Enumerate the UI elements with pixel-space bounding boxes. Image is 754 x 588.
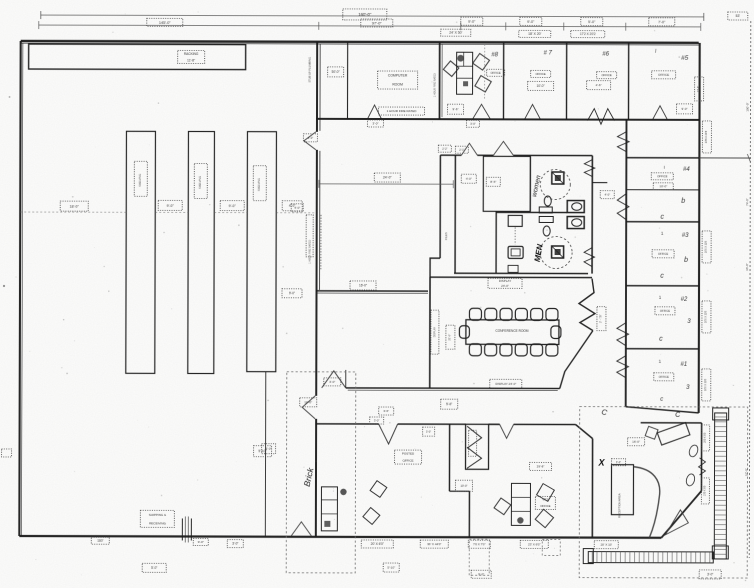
dim line far right bbox=[749, 21, 750, 558]
reception right wall bbox=[700, 423, 702, 491]
stoop dotted bbox=[469, 539, 489, 575]
svg-text:7'0 X 7'0": 7'0 X 7'0" bbox=[473, 542, 486, 546]
desk divider bbox=[457, 65, 473, 67]
svg-text:74'-0": 74'-0" bbox=[745, 198, 749, 206]
sidewalk tick bbox=[685, 552, 687, 563]
sidewalk tick bbox=[610, 552, 612, 563]
desk vp office bbox=[511, 483, 530, 525]
office 3 label bbox=[652, 250, 674, 258]
dim tick bbox=[318, 22, 320, 30]
sidewalk tick bbox=[715, 436, 727, 438]
svg-text:FILES: FILES bbox=[444, 232, 448, 240]
svg-text:20' X 10': 20' X 10' bbox=[601, 543, 613, 547]
dim extension line bbox=[699, 157, 750, 159]
svg-text:50'-0": 50'-0" bbox=[332, 70, 340, 74]
svg-text:SHELVING: SHELVING bbox=[257, 178, 261, 191]
display vert label bbox=[431, 310, 439, 354]
dim tick bbox=[505, 22, 507, 30]
wall office5/4 bbox=[626, 157, 699, 159]
dim label 9'0 bbox=[461, 17, 483, 25]
dim left bbox=[282, 289, 302, 298]
office 5 label bbox=[652, 71, 676, 79]
door office 7 bbox=[524, 104, 540, 119]
sidewalk tick bbox=[714, 538, 726, 540]
posted office label bbox=[395, 450, 422, 464]
sidewalk tick bbox=[715, 465, 727, 467]
sidewalk tick bbox=[695, 552, 697, 563]
conference chair left end bbox=[459, 326, 469, 339]
office 8 label bbox=[487, 69, 505, 76]
conference chair bottom bbox=[500, 344, 512, 356]
svg-text:1 HOUR FIRE RATED: 1 HOUR FIRE RATED bbox=[309, 240, 312, 264]
svg-text:RECEIVING: RECEIVING bbox=[149, 521, 166, 525]
wall warehouse-office divider mid bbox=[315, 150, 318, 396]
conference chair top bbox=[531, 308, 543, 320]
dim 5'6 bbox=[441, 399, 458, 409]
svg-text:4'-0": 4'-0" bbox=[466, 177, 472, 181]
conference right zigzag wall bbox=[579, 279, 595, 331]
svg-text:b: b bbox=[684, 257, 688, 264]
closet bifold b bbox=[467, 447, 482, 468]
svg-text:1 HOUR FIRE RATED: 1 HOUR FIRE RATED bbox=[434, 73, 437, 97]
dim tick bbox=[563, 23, 565, 31]
door right office b bbox=[617, 194, 629, 220]
chair office 8 b bbox=[473, 53, 490, 70]
sidewalk tick bbox=[714, 489, 726, 491]
svg-text:9'-0": 9'-0" bbox=[468, 20, 476, 24]
svg-text:9'-0": 9'-0" bbox=[229, 204, 237, 208]
svg-text:145'-0": 145'-0" bbox=[159, 21, 171, 25]
sidewalk tick bbox=[714, 509, 726, 511]
sidewalk tick bbox=[681, 552, 683, 563]
svg-text:5'-10": 5'-10" bbox=[387, 566, 395, 570]
wall warehouse-office divider lower bbox=[315, 419, 317, 537]
dimension line segments bbox=[39, 25, 701, 27]
wall vestibule left bbox=[495, 211, 497, 273]
svg-text:4'-6": 4'-6" bbox=[596, 83, 602, 87]
conference left wall bbox=[429, 277, 431, 388]
computer room left wall bbox=[346, 42, 348, 119]
closet vp bbox=[466, 424, 489, 469]
dispenser women bbox=[539, 207, 552, 213]
office 7 label bbox=[531, 70, 551, 77]
sidewalk bar top box bbox=[713, 408, 729, 420]
door posted office bbox=[379, 424, 398, 444]
dashed dim line bbox=[155, 211, 188, 213]
svg-text:53': 53' bbox=[736, 14, 741, 18]
vp office label bbox=[535, 496, 555, 509]
svg-text:3'-0": 3'-0" bbox=[470, 122, 476, 126]
conference chair top bbox=[515, 308, 527, 320]
svg-text:5'-0": 5'-0" bbox=[588, 20, 596, 24]
sidewalk tick bbox=[714, 543, 726, 545]
conference chair bottom bbox=[469, 344, 481, 356]
svg-text:3'-0": 3'-0" bbox=[329, 380, 335, 384]
dim tick bbox=[40, 11, 42, 19]
desk office 8 bbox=[457, 52, 473, 94]
sidewalk tick bbox=[591, 552, 593, 563]
files chase step bbox=[430, 258, 440, 277]
desk divider bbox=[321, 513, 337, 515]
dim label rotated right wall bbox=[702, 369, 711, 401]
outer wall top bbox=[21, 41, 699, 43]
vestibule fixture box bbox=[508, 215, 522, 226]
svg-text:RECEPTION AREA: RECEPTION AREA bbox=[617, 493, 621, 518]
dim label warehouse bbox=[220, 201, 244, 211]
sidewalk tick bbox=[709, 552, 711, 563]
shelving label 3 bbox=[253, 166, 266, 201]
svg-text:STUB UP PLUMBING: STUB UP PLUMBING bbox=[308, 57, 312, 82]
dim label 3'0 bbox=[227, 540, 243, 548]
speck mark left upper bbox=[9, 96, 11, 98]
svg-text:# 7: # 7 bbox=[543, 50, 552, 56]
desk divider bbox=[463, 52, 465, 66]
sidewalk tick bbox=[714, 494, 726, 496]
reception oval chair a bbox=[688, 444, 700, 458]
svg-text:3'-0": 3'-0" bbox=[232, 542, 238, 546]
corridor bottom wall d bbox=[514, 423, 576, 425]
dim 3'0 warehouse door bbox=[262, 444, 276, 454]
dim 29'8 bbox=[530, 462, 552, 470]
conference chair bottom bbox=[515, 344, 527, 356]
chair vp a bbox=[494, 498, 511, 515]
storage room bbox=[483, 156, 530, 211]
shipping receiving label bbox=[140, 510, 174, 527]
dim label 160 bbox=[91, 537, 109, 544]
racking unit outline bbox=[29, 44, 246, 70]
dashed dim line bbox=[214, 212, 247, 214]
sidewalk tick bbox=[715, 460, 727, 462]
chair vp b bbox=[537, 484, 555, 502]
sidewalk tick bbox=[619, 552, 621, 563]
svg-text:3'-0": 3'-0" bbox=[426, 430, 431, 434]
svg-text:3'-0": 3'-0" bbox=[308, 136, 314, 140]
svg-text:9'-0": 9'-0" bbox=[682, 107, 688, 111]
tiny door dim a bbox=[438, 145, 451, 152]
sidewalk tick bbox=[671, 552, 673, 563]
wall restroom block top c bbox=[513, 154, 592, 156]
sidewalk tick bbox=[715, 431, 727, 433]
svg-text:RACKING: RACKING bbox=[184, 52, 199, 56]
dim tick bbox=[38, 21, 40, 29]
svg-text:#8: #8 bbox=[491, 52, 498, 58]
sidewalk tick bbox=[714, 529, 726, 531]
speck mark left margin bbox=[3, 285, 5, 287]
svg-text:4'-0": 4'-0" bbox=[294, 206, 300, 210]
corridor bottom wall c bbox=[489, 423, 500, 425]
svg-text:9'-6": 9'-6" bbox=[453, 107, 459, 111]
fire wall hatch bbox=[320, 215, 322, 270]
sidewalk tick bbox=[648, 552, 650, 563]
small box posted office bbox=[324, 521, 330, 527]
wall stub below rack 3 bbox=[264, 372, 266, 537]
svg-text:11'-8": 11'-8" bbox=[187, 58, 195, 62]
sidewalk tick bbox=[601, 552, 603, 563]
corridor chamfer to reception bbox=[576, 425, 593, 439]
dim 3 reception bbox=[612, 459, 626, 466]
sidewalk tick bbox=[699, 552, 701, 563]
svg-text:18'-0": 18'-0" bbox=[70, 204, 80, 208]
svg-text:OFFICE: OFFICE bbox=[659, 375, 669, 379]
wall office 8/7 bbox=[502, 42, 504, 119]
svg-text:#6: #6 bbox=[602, 52, 609, 58]
sidewalk tick bbox=[714, 553, 726, 555]
shelving rack column 3 bbox=[247, 132, 277, 372]
svg-text:OFFICE: OFFICE bbox=[535, 72, 545, 76]
dashed dim line bbox=[276, 212, 314, 214]
divider inner line mid bbox=[319, 151, 321, 290]
svg-text:#5: #5 bbox=[681, 55, 689, 62]
door jamb tick bbox=[184, 516, 186, 542]
toilet men bbox=[552, 246, 564, 258]
wall storage/women bbox=[529, 156, 531, 211]
wall restroom block bottom bbox=[454, 272, 588, 274]
dim 16 reception bbox=[628, 438, 645, 446]
conference right diagonal wall bbox=[560, 331, 593, 389]
svg-text:9'-0": 9'-0" bbox=[289, 291, 295, 295]
dim 23x6 bbox=[520, 540, 548, 548]
dotted box bottom bbox=[542, 539, 560, 555]
svg-text:CONFERENCE ROOM: CONFERENCE ROOM bbox=[495, 329, 528, 333]
svg-text:c: c bbox=[660, 273, 664, 280]
dim label 5'0 bbox=[581, 18, 603, 26]
svg-text:29'-8": 29'-8" bbox=[537, 464, 545, 468]
sidewalk tick bbox=[666, 552, 668, 563]
sidewalk tick bbox=[715, 470, 727, 472]
sink men bbox=[567, 217, 584, 229]
dim label 97'0 bbox=[361, 19, 393, 27]
svg-text:5'-0": 5'-0" bbox=[151, 566, 157, 570]
dashed dim line bbox=[20, 211, 126, 213]
sidewalk tick bbox=[715, 416, 727, 418]
dim door bbox=[370, 417, 384, 424]
reception dim rotated bbox=[701, 478, 709, 504]
note fire rated vertical bbox=[306, 215, 313, 257]
door bottom wall near brick bbox=[291, 522, 311, 536]
tiny door dim b bbox=[455, 146, 468, 153]
sidewalk tick bbox=[605, 552, 607, 563]
door jamb bbox=[181, 518, 183, 540]
wall women/men bbox=[496, 211, 567, 213]
dim label rotated right wall bbox=[702, 231, 711, 263]
door office 5 bbox=[652, 106, 667, 120]
dim 7x7 bbox=[468, 540, 490, 548]
svg-text:36' X 44'0": 36' X 44'0" bbox=[427, 542, 441, 546]
sidewalk tick bbox=[624, 552, 626, 563]
dim label 7'0 bbox=[649, 18, 675, 26]
corridor lower top wall bbox=[346, 387, 560, 390]
chair vp c bbox=[535, 509, 553, 527]
vp office jog bbox=[449, 490, 469, 492]
dim 16 left bbox=[300, 398, 317, 407]
dim 3'0 patio bbox=[699, 570, 721, 579]
svg-text:17'2 X 20'2: 17'2 X 20'2 bbox=[580, 32, 596, 36]
chair disc office 8 bbox=[457, 55, 464, 62]
chair posted a bbox=[370, 481, 387, 498]
dim tick bbox=[460, 22, 462, 30]
sidewalk tick bbox=[657, 552, 659, 563]
door swing chamfer bbox=[665, 510, 688, 535]
svg-text:18'0 X 8'0: 18'0 X 8'0 bbox=[704, 432, 707, 443]
dim 21 vert bbox=[446, 325, 455, 349]
turning circle men bbox=[540, 236, 572, 268]
dim door label bbox=[303, 134, 317, 142]
reception curved counter bbox=[633, 467, 659, 538]
dim open area bbox=[374, 173, 400, 182]
computer room label bbox=[378, 71, 418, 89]
svg-text:10'0 X 11'6: 10'0 X 11'6 bbox=[705, 240, 708, 253]
dim line open office bbox=[319, 183, 453, 185]
svg-text:DISPLAY 24'-0": DISPLAY 24'-0" bbox=[495, 382, 516, 386]
dim label bottom b bbox=[193, 538, 208, 545]
closet dim bbox=[469, 430, 477, 456]
door computer room bbox=[367, 105, 381, 119]
conference chair bottom bbox=[546, 344, 558, 356]
svg-text:3'-0": 3'-0" bbox=[372, 122, 378, 126]
reception desk bbox=[611, 465, 633, 515]
sidewalk tick bbox=[714, 485, 726, 487]
lavatory oval women bbox=[544, 196, 551, 206]
computer room right wall inner bbox=[441, 44, 443, 117]
sidewalk tick bbox=[638, 552, 640, 563]
conference chair bottom bbox=[485, 344, 497, 356]
wall office3/2 bbox=[626, 285, 699, 287]
sidewalk tick bbox=[714, 519, 726, 521]
door corridor west bbox=[322, 370, 346, 388]
closet bifold a bbox=[467, 426, 482, 448]
sidewalk bar vertical bbox=[714, 413, 726, 559]
svg-text:I: I bbox=[664, 165, 665, 170]
svg-text:POSTED: POSTED bbox=[402, 452, 415, 456]
lavatory oval men bbox=[543, 226, 550, 236]
sidewalk bar bottom box bbox=[712, 546, 728, 559]
dim 20x10 bbox=[594, 541, 618, 549]
svg-text:3'-0": 3'-0" bbox=[266, 447, 272, 451]
dim label 9'0 bbox=[520, 17, 542, 25]
svg-text:36'-0": 36'-0" bbox=[745, 263, 749, 271]
svg-text:18' X 20': 18' X 20' bbox=[528, 32, 541, 36]
svg-text:9'-0": 9'-0" bbox=[527, 20, 535, 24]
svg-text:23'6 X 20'8: 23'6 X 20'8 bbox=[705, 130, 708, 143]
wall office4 interior bbox=[626, 189, 699, 191]
dotted dim office8 bbox=[484, 44, 486, 99]
office 4 label bbox=[651, 173, 673, 180]
dispenser men bbox=[539, 216, 553, 222]
door women zigzag bbox=[584, 160, 594, 177]
svg-text:OFFICE: OFFICE bbox=[403, 459, 414, 463]
fire rated label bbox=[378, 107, 424, 115]
svg-text:OFFICE: OFFICE bbox=[658, 73, 669, 77]
shelving label 2 bbox=[194, 163, 207, 198]
wall office 7/6 bbox=[565, 43, 567, 120]
sidewalk tick bbox=[662, 552, 664, 563]
chair posted b bbox=[363, 508, 380, 525]
reception top wall bbox=[641, 422, 702, 424]
door vp office bbox=[500, 424, 514, 438]
door to warehouse upper bbox=[304, 132, 316, 150]
door jamb bbox=[190, 518, 192, 540]
svg-text:2'-2": 2'-2" bbox=[442, 147, 447, 151]
door to warehouse lower bbox=[302, 396, 315, 419]
svg-text:1 HOUR FIRE RATED: 1 HOUR FIRE RATED bbox=[387, 109, 418, 113]
sidewalk tick bbox=[715, 455, 727, 457]
dim label warehouse bbox=[158, 200, 182, 210]
dim label top right bbox=[728, 12, 748, 20]
dimension line overall 160ft bbox=[41, 15, 704, 17]
sidewalk tick bbox=[714, 534, 726, 536]
svg-text:OFFICE: OFFICE bbox=[490, 71, 500, 75]
svg-text:5'-6": 5'-6" bbox=[446, 402, 452, 406]
dim 2-7'8 vert bbox=[597, 307, 606, 331]
door restroom corridor b bbox=[493, 141, 513, 155]
svg-text:2'-1": 2'-1" bbox=[459, 148, 464, 152]
door right office a bbox=[617, 132, 629, 152]
turning circle women bbox=[540, 169, 570, 199]
reception oval chair b bbox=[685, 473, 696, 487]
svg-text:COMPUTER: COMPUTER bbox=[388, 74, 408, 78]
wall warehouse-office divider upper bbox=[316, 42, 318, 132]
sidewalk tick bbox=[715, 445, 727, 447]
svg-text:OFFICE: OFFICE bbox=[540, 504, 550, 508]
svg-text:ROOM: ROOM bbox=[392, 83, 403, 87]
storage dim bbox=[486, 177, 500, 186]
svg-text:SHIPPING &: SHIPPING & bbox=[149, 513, 166, 517]
desk posted office bbox=[321, 487, 337, 531]
svg-text:16'-0": 16'-0" bbox=[632, 440, 640, 444]
dim label 50'0 bbox=[328, 67, 344, 77]
outer wall bottom bbox=[19, 536, 661, 538]
dim tick bbox=[700, 23, 702, 31]
vestibule dotted ladder bbox=[514, 227, 516, 244]
sidewalk tick bbox=[652, 552, 654, 563]
svg-text:160': 160' bbox=[97, 539, 103, 543]
conference chair top bbox=[500, 308, 512, 320]
corridor wall right offices bbox=[625, 120, 628, 407]
svg-text:OFFICE: OFFICE bbox=[660, 309, 670, 313]
svg-text:#4: #4 bbox=[683, 167, 690, 173]
dim 4ft hall bbox=[461, 174, 476, 183]
svg-text:VP'S: VP'S bbox=[542, 498, 548, 502]
reception dim rotated bbox=[702, 425, 710, 451]
sidewalk tick bbox=[714, 548, 726, 550]
dim label 4'0 bbox=[291, 204, 303, 212]
sidewalk tick bbox=[714, 504, 726, 506]
sidewalk tick bbox=[715, 421, 727, 423]
dim tick bbox=[318, 180, 320, 188]
patio dotted outline bbox=[579, 407, 747, 578]
outer wall top inner bbox=[21, 43, 699, 45]
svg-text:20' X 6'0": 20' X 6'0" bbox=[371, 542, 384, 546]
svg-text:10'-0": 10'-0" bbox=[537, 84, 545, 88]
svg-text:c: c bbox=[660, 214, 664, 221]
svg-text:#1: #1 bbox=[680, 362, 687, 368]
chair disc vp bbox=[517, 517, 523, 523]
corridor bottom wall b bbox=[398, 423, 466, 425]
shelving rack column 2 bbox=[188, 131, 215, 373]
svg-text:#2: #2 bbox=[681, 297, 688, 303]
office 2 label bbox=[655, 307, 675, 315]
svg-text:23' X 6'0": 23' X 6'0" bbox=[528, 542, 541, 546]
conference chair bottom bbox=[531, 344, 543, 356]
dim label 145'0 bbox=[147, 18, 183, 26]
svg-text:160'-0": 160'-0" bbox=[358, 12, 372, 17]
conference chair top bbox=[469, 308, 481, 320]
chair disc posted office bbox=[340, 489, 346, 495]
vp office right wall bbox=[591, 439, 593, 538]
corridor bottom wall a bbox=[316, 423, 379, 425]
dim label 18x20 bbox=[519, 30, 551, 37]
wall office2/1 bbox=[626, 348, 699, 350]
